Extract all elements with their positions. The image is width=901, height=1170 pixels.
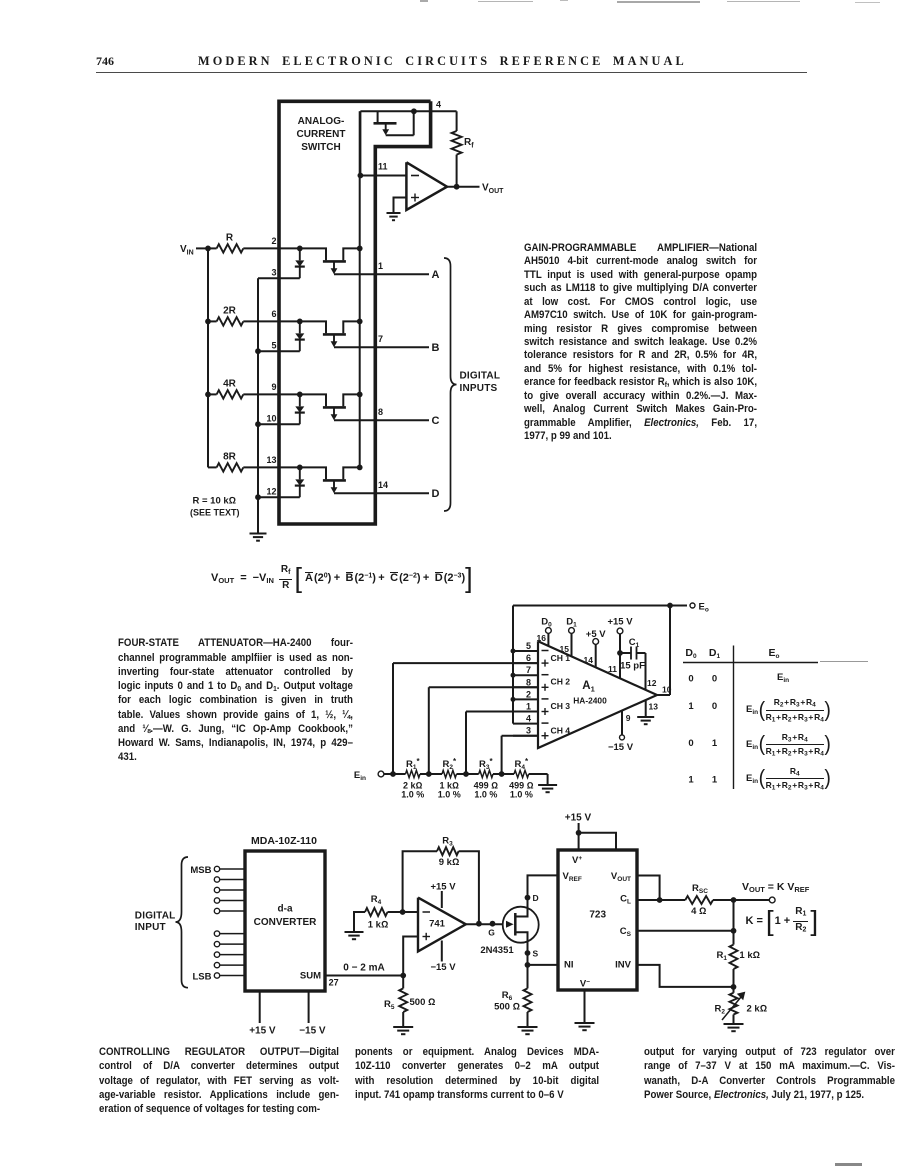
svg-text:D0: D0 [541,617,552,629]
svg-text:0: 0 [712,701,717,712]
svg-text:CONVERTER: CONVERTER [254,917,318,928]
svg-text:741: 741 [429,919,446,930]
svg-text:5: 5 [271,341,276,351]
svg-text:Eo: Eo [699,602,709,614]
svg-text:CH 4: CH 4 [551,726,571,736]
svg-text:1: 1 [688,701,694,712]
svg-text:INPUT: INPUT [135,922,166,933]
svg-text:11: 11 [608,664,617,674]
svg-text:R1: R1 [717,950,728,962]
svg-text:CURRENT: CURRENT [297,129,346,140]
svg-text:Rf: Rf [464,137,474,150]
svg-text:1.0 %: 1.0 % [401,790,424,800]
svg-text:SWITCH: SWITCH [301,142,340,153]
svg-text:SUM: SUM [300,971,321,982]
svg-text:A1: A1 [582,680,594,694]
svg-text:CS: CS [620,926,632,938]
svg-text:D1: D1 [709,647,721,660]
svg-text:8: 8 [526,677,531,687]
svg-text:C: C [432,415,440,427]
svg-text:CL: CL [620,894,631,906]
svg-text:2: 2 [526,689,531,699]
svg-text:V+: V+ [572,855,582,866]
svg-text:1: 1 [712,775,718,786]
svg-text:8: 8 [378,407,383,417]
svg-text:R2*: R2* [442,757,457,771]
svg-text:10: 10 [266,414,276,424]
svg-text:9 kΩ: 9 kΩ [439,857,460,868]
svg-text:CH 3: CH 3 [551,701,571,711]
svg-text:3: 3 [271,268,276,278]
svg-text:4R: 4R [223,378,237,389]
svg-text:6: 6 [526,653,531,663]
svg-text:0: 0 [712,674,717,685]
svg-text:4: 4 [526,714,531,724]
svg-text:7: 7 [526,665,531,675]
svg-text:MDA-10Z-110: MDA-10Z-110 [251,835,317,847]
svg-text:R1*: R1* [406,757,421,771]
svg-text:S: S [533,949,539,959]
svg-text:8R: 8R [223,451,237,462]
svg-text:4 Ω: 4 Ω [691,906,706,917]
svg-text:10: 10 [662,685,672,695]
svg-text:MSB: MSB [190,865,211,876]
svg-text:C1: C1 [629,637,640,649]
svg-text:R2: R2 [715,1004,726,1016]
svg-text:1 kΩ: 1 kΩ [739,950,760,961]
svg-text:12: 12 [647,678,657,688]
svg-text:D1: D1 [566,617,577,629]
svg-text:500 Ω: 500 Ω [410,997,436,1008]
svg-text:6: 6 [271,309,276,319]
svg-text:CH 2: CH 2 [551,677,571,687]
svg-text:12: 12 [266,487,276,497]
svg-text:1.0 %: 1.0 % [438,790,461,800]
svg-text:+15 V: +15 V [430,882,456,893]
svg-text:9: 9 [626,713,631,723]
svg-text:14: 14 [378,480,388,490]
svg-text:0 − 2 mA: 0 − 2 mA [343,963,384,974]
svg-text:0: 0 [688,738,693,749]
svg-text:VIN: VIN [180,244,194,257]
svg-text:R3: R3 [442,836,453,848]
svg-text:2N4351: 2N4351 [480,945,514,956]
svg-text:+15 V: +15 V [607,617,633,628]
svg-text:G: G [488,928,495,938]
svg-text:V−: V− [580,979,590,990]
svg-text:INV: INV [615,960,632,971]
svg-text:723: 723 [589,910,606,921]
svg-text:R6: R6 [502,990,513,1002]
svg-text:1 kΩ: 1 kΩ [368,920,389,931]
svg-text:4: 4 [436,100,441,110]
svg-text:DIGITAL: DIGITAL [135,911,176,922]
svg-text:INPUTS: INPUTS [460,383,498,394]
svg-text:−15 V: −15 V [608,742,634,753]
svg-text:11: 11 [378,162,388,172]
svg-text:R = 10 kΩ: R = 10 kΩ [193,496,236,507]
svg-text:5: 5 [526,641,531,651]
svg-text:16: 16 [537,633,547,643]
svg-text:7: 7 [378,334,383,344]
svg-text:NI: NI [564,960,574,971]
svg-text:27: 27 [329,978,339,988]
svg-text:(SEE TEXT): (SEE TEXT) [190,508,240,518]
svg-text:14: 14 [584,655,594,665]
svg-text:VOUT: VOUT [611,871,631,883]
svg-text:LSB: LSB [193,971,212,982]
svg-text:1: 1 [378,261,383,271]
svg-text:D0: D0 [685,647,697,660]
svg-text:1: 1 [712,738,718,749]
svg-text:2R: 2R [223,305,237,316]
svg-text:−15 V: −15 V [299,1026,326,1037]
svg-text:15 pF: 15 pF [620,660,645,671]
svg-text:VREF: VREF [563,871,582,883]
svg-text:R4*: R4* [515,757,530,771]
svg-text:13: 13 [649,701,659,711]
svg-text:RSC: RSC [692,883,708,895]
svg-text:VOUT: VOUT [482,183,504,196]
svg-text:R3*: R3* [479,757,494,771]
svg-text:A: A [432,269,440,281]
svg-text:d-a: d-a [278,904,293,915]
svg-text:+15 V: +15 V [249,1026,276,1037]
svg-text:1.0 %: 1.0 % [474,790,497,800]
svg-text:−15 V: −15 V [430,962,456,973]
svg-text:HA-2400: HA-2400 [573,696,607,706]
svg-text:+5 V: +5 V [586,629,606,640]
svg-text:2 kΩ: 2 kΩ [747,1004,768,1015]
svg-text:R5: R5 [384,999,395,1011]
svg-text:+15 V: +15 V [565,813,592,824]
svg-text:DIGITAL: DIGITAL [460,371,501,382]
svg-text:1: 1 [688,775,694,786]
svg-text:13: 13 [266,455,276,465]
svg-text:D: D [432,488,440,500]
svg-text:0: 0 [688,674,693,685]
svg-text:ANALOG-: ANALOG- [298,116,345,127]
svg-text:B: B [432,342,440,354]
svg-text:9: 9 [271,382,276,392]
svg-text:500 Ω: 500 Ω [494,1002,520,1013]
svg-text:1.0 %: 1.0 % [510,790,533,800]
svg-text:CH 1: CH 1 [551,653,571,663]
svg-text:15: 15 [560,644,570,654]
svg-text:Eo: Eo [769,647,780,660]
svg-text:1: 1 [526,702,531,712]
svg-text:D: D [533,893,539,903]
svg-text:2: 2 [271,236,276,246]
svg-text:R4: R4 [371,894,382,906]
svg-text:3: 3 [526,726,531,736]
svg-text:R: R [226,232,234,243]
svg-text:Ein: Ein [354,770,366,782]
